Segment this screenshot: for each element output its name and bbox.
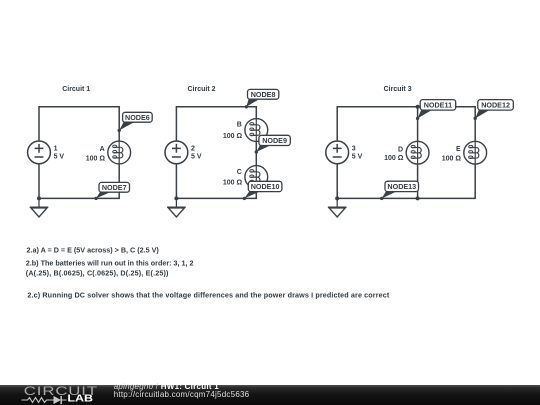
- junction node dot: [335, 196, 339, 200]
- ground: [328, 198, 347, 217]
- svg-text:E: E: [456, 146, 461, 153]
- svg-text:LAB: LAB: [67, 394, 93, 405]
- node NODE12 flag: [474, 100, 514, 121]
- svg-text:5 V: 5 V: [191, 154, 202, 161]
- svg-text:2.a) A = D = E (5V across) > B: 2.a) A = D = E (5V across) > B, C (2.5 V…: [27, 245, 160, 254]
- node NODE9 flag: [255, 135, 291, 153]
- svg-text:http://circuitlab.com/cqm74j5d: http://circuitlab.com/cqm74j5dc5636: [114, 390, 250, 399]
- wire: [417, 107, 419, 142]
- ground: [167, 198, 186, 217]
- svg-text:100 Ω: 100 Ω: [442, 155, 462, 162]
- wire: [337, 164, 475, 198]
- svg-text:2.b) The batteries will run ou: 2.b) The batteries will run out in this …: [26, 258, 194, 267]
- svg-text:C: C: [237, 169, 242, 176]
- svg-text:NODE8: NODE8: [251, 90, 276, 99]
- lamp LAMP C (100 Ω): [245, 166, 268, 189]
- svg-text:1: 1: [54, 146, 58, 153]
- svg-text:B: B: [237, 121, 242, 128]
- node NODE6 flag: [118, 112, 153, 132]
- junction node dot: [416, 105, 420, 109]
- node NODE13 flag: [380, 181, 419, 200]
- wire: [255, 141, 257, 165]
- voltage source V3 (5 V): [326, 141, 349, 164]
- wire: [176, 188, 256, 198]
- svg-text:D: D: [398, 146, 403, 153]
- wire: [175, 164, 177, 199]
- ground: [30, 198, 49, 217]
- wire: [417, 164, 419, 198]
- svg-text:Circuit 1: Circuit 1: [62, 86, 90, 93]
- svg-text:100 Ω: 100 Ω: [223, 133, 243, 140]
- svg-text:(A(.25), B(.0625), C(.0625), D: (A(.25), B(.0625), C(.0625), D(.25), E(.…: [26, 269, 169, 278]
- lamp LAMP D (100 Ω): [406, 141, 429, 164]
- lamp LAMP E (100 Ω): [464, 141, 487, 164]
- junction node dot: [416, 196, 420, 200]
- wire: [39, 107, 119, 141]
- svg-text:NODE7: NODE7: [102, 183, 127, 192]
- svg-text:5 V: 5 V: [352, 154, 363, 161]
- wire: [39, 164, 119, 199]
- svg-text:2.c) Running DC solver shows t: 2.c) Running DC solver shows that the vo…: [27, 291, 389, 300]
- wire: [337, 107, 475, 142]
- svg-text:100 Ω: 100 Ω: [384, 155, 404, 162]
- CircuitLab logo: [22, 386, 98, 405]
- svg-text:NODE12: NODE12: [481, 101, 510, 110]
- node NODE8 flag: [245, 89, 279, 108]
- voltage source V2 (5 V): [165, 141, 188, 164]
- svg-text:NODE13: NODE13: [387, 182, 416, 191]
- svg-text:A: A: [100, 146, 105, 153]
- svg-text:5 V: 5 V: [54, 154, 65, 161]
- voltage source V1 (5 V): [28, 141, 51, 164]
- junction node dot: [174, 196, 178, 200]
- lamp LAMP B (100 Ω): [245, 119, 268, 142]
- svg-text:Circuit 2: Circuit 2: [188, 86, 216, 93]
- junction node dot: [37, 196, 41, 200]
- svg-text:NODE9: NODE9: [262, 136, 287, 145]
- svg-text:2: 2: [191, 146, 195, 153]
- svg-text:NODE11: NODE11: [424, 101, 452, 110]
- svg-text:100 Ω: 100 Ω: [86, 155, 106, 162]
- wire: [176, 107, 256, 141]
- node NODE7 flag: [94, 182, 129, 200]
- svg-text:3: 3: [352, 146, 356, 153]
- svg-text:Circuit 3: Circuit 3: [384, 86, 412, 93]
- node NODE11 flag: [416, 100, 456, 121]
- wire: [336, 164, 338, 199]
- lamp LAMP A (100 Ω): [108, 141, 131, 164]
- svg-text:NODE6: NODE6: [125, 113, 150, 122]
- node NODE10 flag: [243, 181, 282, 200]
- svg-text:NODE10: NODE10: [251, 182, 280, 191]
- svg-text:100 Ω: 100 Ω: [223, 179, 243, 186]
- wire: [38, 164, 40, 199]
